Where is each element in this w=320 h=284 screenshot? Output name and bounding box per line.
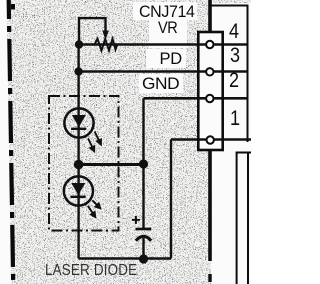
- junction dot D: [139, 159, 148, 168]
- white patch below connector right: [211, 153, 251, 284]
- capacitor plus sign: [132, 216, 140, 224]
- pickup block boundary chain line: [9, 0, 14, 284]
- label VR: [158, 19, 177, 38]
- connector pin box: [198, 32, 222, 150]
- next board box left edge: [236, 153, 238, 284]
- wire: GND level pin2: [144, 97, 248, 100]
- chain line top tick: [11, 4, 15, 10]
- wire: bottom return: [79, 257, 171, 259]
- pin number 4: [229, 20, 239, 44]
- label PD: [160, 50, 182, 69]
- connector outer box lower left: [208, 150, 212, 261]
- pin 2 circle: [206, 95, 213, 102]
- connector outer box lower left blob: [208, 274, 211, 282]
- emission arrows LD: [88, 132, 101, 152]
- wire: pin1 vertical branch: [170, 140, 172, 259]
- scan speckle texture: [0, 0, 251, 284]
- wire: cross link: [79, 163, 144, 166]
- label LASER DIODE: [45, 262, 137, 280]
- white patch pin box interior: [199, 31, 223, 151]
- junction dot E: [139, 254, 148, 263]
- next board box right edge: [247, 153, 249, 284]
- next board box top edge: [236, 152, 251, 154]
- pin 1 circle: [207, 136, 214, 143]
- capacitor branch wire bottom: [142, 238, 144, 259]
- optical block dash-dot box: [49, 96, 119, 231]
- white patch PD: [146, 49, 186, 68]
- capacitor C branch wire top: [142, 164, 144, 228]
- capacitor curved plate: [136, 236, 151, 241]
- label CNJ714: [139, 3, 195, 22]
- white patch VR: [149, 19, 187, 48]
- capacitor top plate: [136, 228, 152, 231]
- junction dot C: [74, 160, 84, 170]
- paper background: [0, 0, 251, 284]
- wire: VR level pin4: [79, 43, 248, 45]
- label GND: [142, 75, 179, 94]
- white patch GND: [139, 74, 183, 93]
- wiper arrowhead: [102, 31, 109, 41]
- resistor VR1: [95, 39, 118, 51]
- emission arrows PD: [88, 200, 101, 217]
- white patch CNJ714: [133, 2, 197, 20]
- pin 3 circle: [206, 68, 213, 75]
- connector outer box outline: [210, 6, 248, 143]
- pin number 3: [230, 44, 240, 68]
- wire: pin1 level: [171, 138, 251, 140]
- pin 4 circle: [206, 41, 213, 48]
- white patch connector interior: [210, 3, 251, 153]
- photo diode PD: [64, 176, 93, 205]
- pin number 1: [230, 107, 240, 131]
- wiper loop wire: [79, 18, 106, 44]
- pin number 2: [229, 69, 239, 93]
- wire: PD level pin3: [79, 70, 248, 72]
- white margin left of boundary: [0, 0, 11, 284]
- connector CNJ714 outer box top: [208, 0, 212, 31]
- wire: GND corner branch: [142, 98, 144, 163]
- laser diode LD: [64, 108, 93, 137]
- junction dot B: [74, 67, 82, 75]
- junction dot A: [75, 40, 83, 48]
- wire: main vertical LED string: [77, 45, 79, 259]
